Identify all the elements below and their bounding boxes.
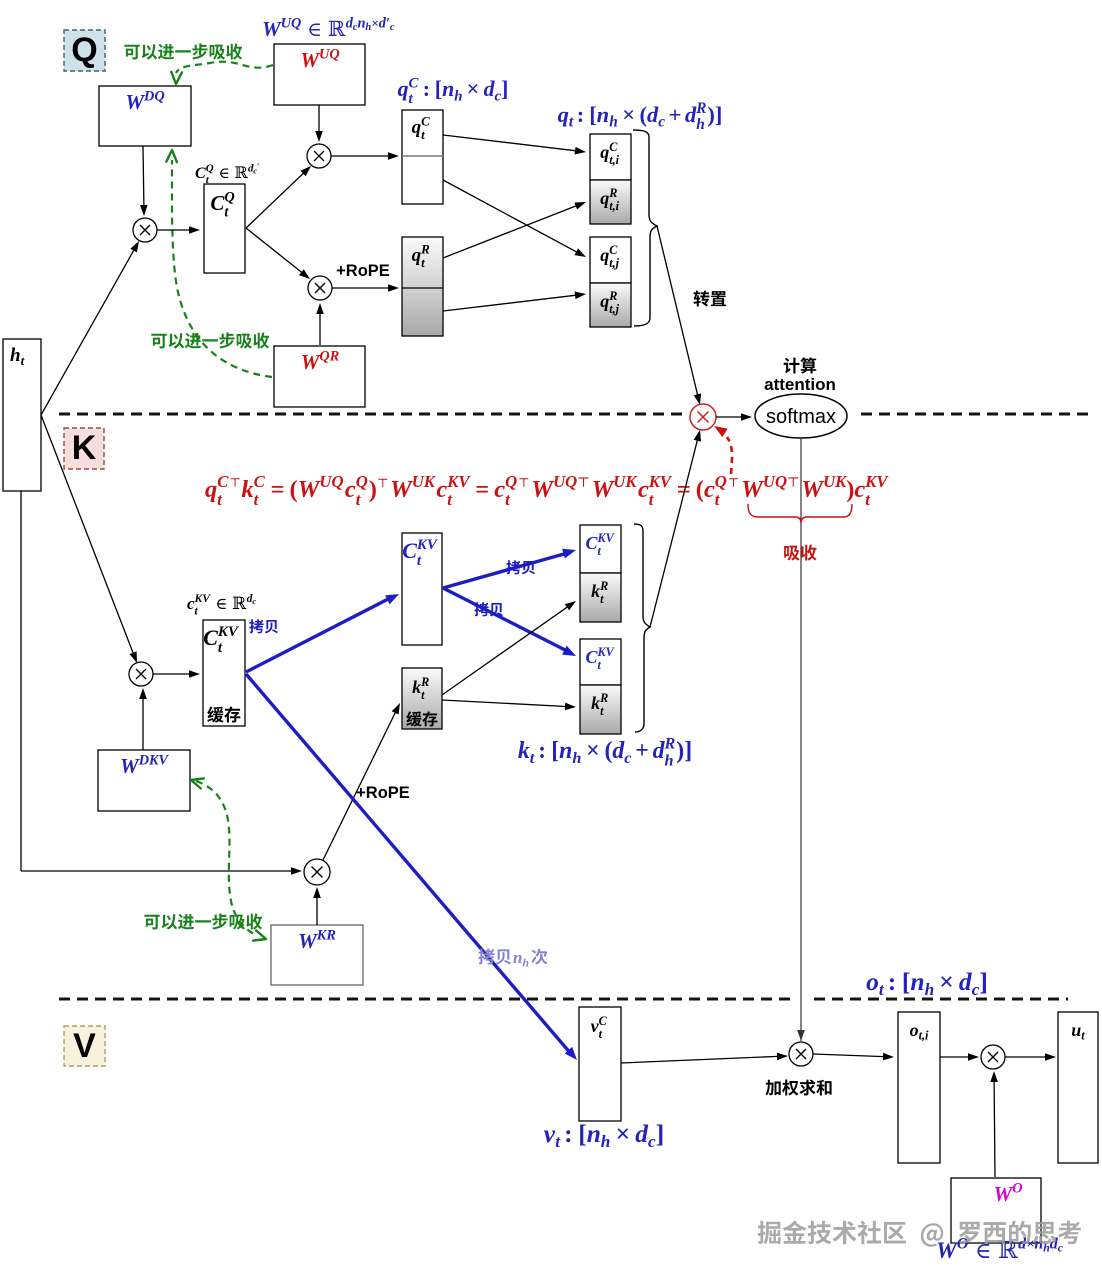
svg-text:q: q [412,245,422,266]
blue wire C_t^KV copy up [246,594,399,672]
svg-text:[: [ [902,967,911,996]
svg-text:h: h [601,1132,611,1151]
wire qC to q_tj^C [443,180,586,257]
svg-text:Q: Q [224,190,234,206]
box o_ti [898,1012,940,1163]
svg-text:×: × [616,1119,631,1148]
label q_tj^R [600,289,619,316]
svg-text::: : [564,1119,573,1148]
label h_t [10,345,25,368]
svg-text:R: R [695,100,706,117]
multiply node KR [304,859,330,885]
svg-text:t,i: t,i [609,199,619,213]
svg-text:O: O [1012,1181,1022,1197]
svg-text:K: K [72,429,97,467]
label W^QR [301,349,340,374]
blue wire copy to stack 2 [443,588,576,656]
label o_t dims [866,967,988,999]
section label V [64,1026,105,1066]
svg-text:KV: KV [446,472,471,491]
svg-text:W: W [936,1238,959,1264]
svg-text:W: W [125,90,145,114]
label W^O [994,1181,1023,1206]
svg-text:q: q [600,291,609,311]
svg-text:)]: )] [707,102,722,127]
green note absorb-3 [144,914,262,930]
svg-text:W: W [801,476,825,503]
brace k stack [634,524,650,732]
svg-text:d′: d′ [379,16,390,32]
svg-text:n: n [559,738,572,764]
svg-text:t: t [1081,1029,1085,1043]
wire o_ti to multiply O [940,1053,979,1061]
label v_t dims [544,1119,664,1151]
box v_t^C [579,1007,621,1121]
label q_t^C dims [398,75,509,107]
svg-text:c: c [436,476,447,503]
box q_t^R gradient [402,237,443,336]
svg-text:+RoPE: +RoPE [356,784,410,802]
svg-text:c: c [624,749,631,767]
svg-text:C: C [402,538,417,563]
svg-text:C: C [210,191,225,215]
svg-text:Q: Q [206,163,214,175]
label C_t^Q dims [195,162,259,186]
svg-text:v: v [544,1119,556,1148]
svg-text:×: × [467,77,479,101]
multiply node weighted sum [789,1042,813,1066]
svg-text:h: h [665,752,674,770]
box W^O [951,1178,1041,1243]
dashed separator QK left [59,413,686,416]
svg-text:): ) [846,476,854,503]
svg-text:KR: KR [316,928,336,944]
svg-text:): ) [369,476,377,503]
label C_t^KV stack1 [586,531,615,558]
box k_t^R stack2 gradient [580,685,621,734]
svg-text:[: [ [551,738,559,764]
wire q brace to attention multiply [657,226,701,405]
svg-text:n: n [587,1119,601,1148]
svg-text::: : [577,102,585,127]
svg-text:k: k [518,738,530,764]
label cache-1 [207,706,240,722]
red dashed wire formula to multiply [714,426,732,474]
svg-text:n: n [442,77,454,101]
label W^UQ dims [262,16,395,41]
wire softmax down to weighted sum [797,438,805,1041]
wire qR to q_ti^R [443,202,586,258]
svg-text:×: × [622,102,635,127]
svg-text:W: W [301,350,321,374]
svg-text:C: C [599,1014,608,1028]
wire multiply K to C_t^KV [153,670,200,678]
label absorb [784,545,816,561]
svg-text:×: × [371,16,378,31]
svg-text:q: q [398,77,409,101]
svg-text:UQ: UQ [319,472,343,491]
svg-text:KV: KV [416,537,439,553]
svg-text:QR: QR [319,349,339,365]
label W^DQ [125,89,164,114]
svg-text:W: W [994,1182,1014,1206]
svg-text:UK: UK [412,472,437,491]
box C_t^KV cache [203,620,245,726]
svg-text:C: C [609,140,618,154]
wire C_t^Q to multiply UQ [246,166,311,228]
label q_t^C [412,114,431,142]
svg-text:q: q [600,188,609,208]
svg-text:W: W [300,48,320,72]
wire multiply KR to k_t^R box [323,703,400,860]
svg-text:q: q [600,142,609,162]
label W^UQ [300,47,339,72]
multiply node QR [308,276,332,300]
blue wire copy nh times [246,674,577,1060]
wire multiply to C_t^Q box [157,226,200,234]
box W^KR [271,925,363,985]
svg-text:]: ] [501,77,508,101]
svg-text:C: C [409,75,419,91]
dashed separator QK right [861,413,1090,416]
svg-text:W: W [390,476,414,503]
svg-text:t,j: t,j [609,256,619,270]
multiply node O [981,1045,1005,1069]
svg-text:d: d [647,102,659,127]
svg-text:(: ( [640,102,648,127]
svg-text:C: C [421,114,430,128]
label W^KR [298,928,336,953]
label copy-2 [506,560,535,574]
svg-text:UQ: UQ [281,16,302,32]
box k_t^R cache gradient [402,668,442,729]
svg-text:C: C [203,625,218,650]
red absorb formula [205,472,889,509]
svg-text:]: ] [979,967,988,996]
svg-text:t: t [569,114,574,131]
svg-text:Q: Q [505,472,517,491]
svg-text:(: ( [605,738,613,764]
label W^DKV [120,753,170,778]
svg-text:c: c [658,114,665,131]
label k_t^R stack1 [591,579,608,606]
label C_t^KV stack2 [586,645,615,672]
label q_t dims [558,100,723,133]
box W^DKV [98,750,190,811]
wire W^KR to multiply [313,887,321,925]
wire k_t^R to stack1 [442,601,576,695]
label C_t^KV center [402,537,439,569]
svg-text:R: R [664,735,676,753]
label q_tj^C [600,243,619,270]
wire k brace to attention multiply [650,430,701,627]
svg-text:c: c [390,22,395,33]
green note absorb-1 [124,44,242,60]
green dashed wire QR to DQ [166,150,272,377]
svg-text:k: k [591,581,600,601]
svg-text:h: h [696,116,705,133]
svg-text:h: h [10,345,21,366]
box C_t^Q [204,184,245,273]
svg-text:+: + [635,738,649,764]
green note absorb-2 [151,333,269,349]
label C_t^Q [210,190,234,221]
box q_tj^C [590,237,631,283]
svg-text:R: R [599,579,608,593]
svg-text:h: h [925,980,935,999]
svg-text:V: V [73,1027,96,1065]
label copy-1 [249,619,278,633]
wire h_t to multiply Q [41,241,139,415]
svg-text:(: ( [696,476,704,503]
svg-text:h: h [523,956,529,969]
label o_ti [910,1020,929,1043]
wire multiply to q_t^C box [331,152,399,160]
svg-text:u: u [1071,1020,1081,1040]
multiply node K [129,662,153,686]
svg-text:=: = [475,476,489,503]
svg-text:KV: KV [597,531,615,545]
box k_t^R stack1 gradient [580,573,621,622]
svg-text::: : [423,77,430,101]
label transpose [693,291,726,307]
label k_t^R stack2 [591,691,608,718]
svg-text:t: t [421,256,425,270]
svg-text:q: q [412,117,422,138]
box W^UQ [274,44,365,105]
svg-text:UQ: UQ [553,472,577,491]
svg-text:UQ: UQ [319,47,340,63]
box C_t^KV center [402,533,442,645]
wire qC to q_ti^C [443,135,586,155]
label W^O dims [936,1236,1064,1264]
label cache-2 [406,711,437,726]
svg-text:UK: UK [613,472,638,491]
svg-text:h: h [609,114,618,131]
multiply node Q [133,218,157,242]
red underbrace [748,504,852,523]
box C_t^KV stack1 [580,525,621,573]
label copy-3 [474,602,503,616]
svg-text:×: × [939,967,954,996]
multiply node UQ [307,144,331,168]
svg-text:k: k [412,677,421,697]
svg-text:W: W [741,476,765,503]
box W^DQ [99,86,191,146]
svg-text:R: R [420,675,429,689]
wire v_t^C to weighted sum [621,1053,788,1063]
svg-text:W: W [262,17,282,41]
svg-text:n: n [513,948,522,967]
svg-text:W: W [298,929,318,953]
svg-text:KV: KV [217,624,240,640]
svg-text:DQ: DQ [143,89,165,105]
label compute attention [764,357,836,394]
svg-text:[: [ [578,1119,587,1148]
brace q stack [633,130,657,326]
svg-text:t,i: t,i [919,1029,929,1043]
svg-text:]: ] [656,1119,665,1148]
svg-text:R: R [420,242,430,256]
svg-text:o: o [910,1020,919,1040]
wire C_t^Q to multiply QR [246,228,310,279]
svg-text:t,j: t,j [609,302,619,316]
svg-text:k: k [241,476,254,503]
svg-text:UK: UK [823,472,848,491]
svg-text:C: C [217,472,229,491]
green dashed wire DKV-KR [191,778,266,940]
svg-text:′: ′ [257,162,259,171]
svg-text:+: + [669,102,682,127]
svg-text:n: n [910,967,924,996]
svg-text:=: = [271,476,285,503]
box C_t^KV stack2 [580,639,621,685]
label q_ti^R [600,186,619,213]
svg-text:W: W [531,476,555,503]
svg-text:t: t [21,354,25,368]
svg-text:(: ( [290,476,298,503]
label u_t [1071,1020,1085,1043]
wire W^DKV to multiply K [139,688,147,750]
box q_ti^C [590,134,631,180]
svg-text:h: h [572,749,581,767]
svg-text:=: = [677,476,691,503]
svg-text:KV: KV [194,592,212,605]
box u_t [1058,1012,1098,1163]
multiply node attention (red) [690,404,716,430]
svg-text:n: n [358,16,366,32]
softmax ellipse [755,394,847,438]
label q_t^R [412,242,431,270]
box W^QR [274,346,365,407]
wire attention multiply to softmax [716,413,752,421]
svg-text:W: W [298,476,322,503]
svg-text:q: q [558,102,569,127]
dashed separator KV left [59,998,790,1001]
wire qR to q_tj^R [443,292,586,312]
svg-text:W: W [592,476,616,503]
svg-text:k: k [591,693,600,713]
svg-text:q: q [600,245,609,265]
svg-text:R: R [608,289,617,303]
svg-text:c: c [638,476,649,503]
label C_t^KV [203,624,240,656]
label +RoPE K [356,784,410,802]
svg-text:R: R [599,691,608,705]
label q_ti^C [600,140,619,167]
svg-text:R: R [608,186,617,200]
svg-text:q: q [205,476,217,503]
wire h_t down to multiply KR [21,491,302,875]
label k_t^R [412,675,429,702]
svg-text:[: [ [435,77,442,101]
svg-text::: : [888,967,897,996]
svg-text:n: n [597,102,610,127]
label copy nh times [478,948,547,969]
svg-text:)]: )] [676,738,692,764]
svg-text:c: c [854,476,865,503]
svg-text:t: t [530,749,535,767]
svg-text:h: h [454,88,462,104]
svg-text:c: c [1058,1240,1064,1254]
box q_t^C [402,110,443,204]
svg-text:KV: KV [597,645,615,659]
svg-text:KV: KV [864,472,889,491]
svg-text::: : [538,738,546,764]
svg-text:t: t [421,128,425,142]
wire h_t to multiply K [41,415,137,663]
svg-text:UQ: UQ [763,472,787,491]
wire W^DQ to multiply Q [140,146,148,216]
section label Q [64,30,105,71]
dashed separator KV right [814,998,1068,1001]
svg-text:×: × [586,738,600,764]
wire weighted sum to o_ti [813,1053,894,1061]
wire W^QR to multiply [316,303,324,345]
svg-text:c: c [345,476,356,503]
section label K [64,428,104,469]
svg-text:c: c [704,476,715,503]
box h_t [3,339,41,491]
svg-text:softmax: softmax [766,406,836,428]
svg-text:t,i: t,i [609,153,619,167]
svg-text:C: C [195,165,206,182]
wire W^UQ to multiply [315,105,323,142]
svg-text:c: c [252,596,256,606]
svg-text:[: [ [589,102,597,127]
svg-text:C: C [254,472,266,491]
wire multiply to q_t^R box [332,284,399,292]
svg-text:Q: Q [71,31,97,69]
svg-text:Q: Q [356,472,368,491]
svg-text:Q: Q [715,472,727,491]
watermark [758,1220,1081,1246]
label v_t^C [591,1014,608,1041]
svg-text:d: d [685,102,697,127]
label +RoPE [336,262,390,280]
svg-text:+RoPE: +RoPE [336,262,390,280]
svg-text:W: W [120,754,140,778]
svg-text:KV: KV [648,472,673,491]
svg-text:attention: attention [764,375,836,394]
label k_t dims [518,735,692,770]
green dashed wire UQ to DQ [171,62,273,84]
wire W^O to multiply O [990,1071,998,1177]
svg-text:o: o [866,967,879,996]
wire multiply O to u_t [1005,1053,1056,1061]
wire k_t^R to stack2 [442,700,576,710]
box q_ti^R gradient [590,180,631,224]
svg-text:DKV: DKV [138,753,170,769]
label weighted sum [765,1080,831,1096]
box q_tj^R gradient [590,283,631,327]
blue wire copy to stack 1 [443,549,576,588]
svg-text:C: C [609,243,618,257]
label c_t^KV dims [187,592,256,617]
svg-text:c: c [494,476,505,503]
